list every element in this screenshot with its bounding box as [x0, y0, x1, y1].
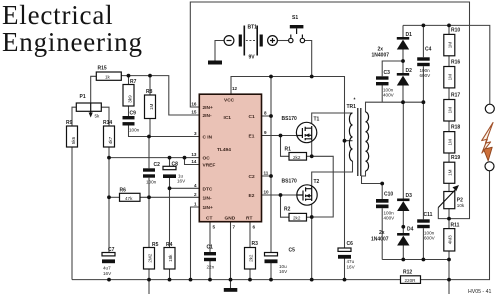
resistor R2 2k2	[284, 207, 307, 222]
svg-text:2M2: 2M2	[147, 253, 152, 262]
capacitor C11 100n 600V	[417, 212, 435, 241]
wire: P1 right terminal to R14	[101, 107, 109, 126]
svg-text:22n: 22n	[207, 265, 215, 270]
svg-text:OC: OC	[203, 156, 211, 162]
wire: ladder column R10-R11	[448, 25, 450, 294]
diode D1 1N4007	[397, 32, 412, 50]
wire: top HV bus to output terminal	[403, 25, 490, 104]
wire: R8 top to net A	[149, 76, 151, 95]
resistor R18	[444, 125, 461, 153]
svg-text:R18: R18	[451, 125, 460, 131]
svg-text:47u: 47u	[347, 259, 355, 264]
output terminal upper	[485, 104, 494, 113]
svg-text:GND: GND	[225, 216, 236, 222]
svg-text:600V: 600V	[424, 236, 436, 241]
svg-text:Engineering: Engineering	[2, 27, 143, 57]
capacitor C6 47u 16V electrolytic	[338, 241, 356, 269]
resistor R19	[444, 155, 461, 183]
resistor R5	[144, 242, 159, 269]
wire: R1 gate lead	[281, 136, 290, 157]
wire: DTC line pin 4 to C8 bottom	[170, 187, 200, 189]
wire: battery minus to ground	[215, 41, 224, 56]
svg-text:400V: 400V	[384, 216, 396, 221]
wire: switch S1 to +9V junction	[305, 41, 312, 77]
wire: OC/VREF line to pin 13 and pin 14	[109, 158, 199, 165]
svg-text:R12: R12	[403, 270, 412, 276]
wire: R6 left lead	[109, 196, 120, 198]
wire: ground bus	[72, 279, 449, 281]
capacitor C1 22n	[204, 245, 216, 270]
svg-text:4u7: 4u7	[103, 266, 111, 271]
wire: C9 bottom to IC pin 3	[129, 126, 200, 137]
svg-text:HV05 - 41: HV05 - 41	[468, 289, 491, 294]
svg-text:R16: R16	[451, 60, 460, 66]
wire: D1 D2 column	[402, 25, 404, 102]
svg-text:16V: 16V	[177, 179, 186, 184]
svg-text:C8: C8	[172, 162, 179, 168]
wire: R14 bottom through C7 column	[108, 147, 110, 253]
resistor R1 2k2	[285, 147, 307, 161]
svg-text:R8: R8	[146, 89, 153, 95]
svg-text:16V: 16V	[279, 269, 288, 274]
transformer TR1	[347, 98, 369, 177]
capacitor C10 100n 400V	[376, 192, 395, 221]
diode D2 1N4007	[397, 68, 412, 86]
svg-text:1IN+: 1IN+	[203, 205, 213, 211]
svg-text:D3: D3	[406, 193, 413, 199]
svg-text:*: *	[354, 98, 356, 104]
wire: C6 bottom to bus	[344, 259, 346, 280]
svg-text:VCC: VCC	[224, 98, 235, 104]
capacitor C3 100n 400V	[376, 70, 395, 98]
svg-text:C9: C9	[130, 111, 137, 117]
resistor R11	[444, 223, 460, 252]
svg-text:2k2: 2k2	[293, 155, 301, 160]
svg-text:C1: C1	[249, 114, 255, 120]
svg-text:S1: S1	[292, 15, 298, 21]
svg-text:R7: R7	[130, 79, 137, 85]
IC U1 TL494 body	[199, 94, 261, 222]
svg-text:4k7: 4k7	[108, 136, 113, 144]
svg-text:10k: 10k	[457, 203, 465, 208]
svg-text:1M: 1M	[448, 74, 453, 81]
svg-text:18k: 18k	[168, 254, 173, 262]
svg-text:R1: R1	[285, 147, 292, 153]
wire: CT pin 5 to C1	[209, 222, 211, 252]
svg-text:2k2: 2k2	[248, 254, 253, 262]
wire: feedback net from P2 wiper along top edge to IC pin 16	[190, 2, 469, 219]
svg-text:1k: 1k	[105, 75, 111, 80]
resistor R10	[444, 28, 461, 56]
junction dots transistor section	[279, 134, 314, 219]
svg-text:TR1: TR1	[347, 104, 357, 110]
wire: GND pin 7 to bus	[230, 222, 232, 280]
pin numbers IC1	[191, 86, 269, 230]
wire: R1 right to T1 source junction	[307, 155, 312, 157]
wire: RT pin 6 to R3	[249, 222, 251, 280]
svg-text:BS170: BS170	[282, 179, 298, 185]
capacitor C5 10u 16V electrolytic	[265, 248, 296, 275]
wire: P2 wiper jog	[438, 208, 449, 219]
wire: pin 10 to T2 gate	[262, 194, 298, 196]
wire: C5 bottom to bus	[270, 263, 272, 280]
potentiometer P1 5k	[76, 94, 101, 119]
resistor R17	[444, 93, 461, 122]
junction dots ladder	[422, 24, 451, 221]
wire: T1 drain to transformer primary top	[312, 113, 353, 123]
svg-text:C1: C1	[207, 245, 214, 251]
wire: R2 gate lead	[281, 195, 290, 217]
wire: T2 drain to transformer primary bottom	[312, 161, 353, 186]
transistor T2 BS170	[282, 179, 320, 206]
resistor R9	[66, 120, 78, 147]
resistor R8 1M	[145, 89, 156, 119]
resistor R3	[245, 241, 259, 269]
resistor R6 47k	[120, 188, 141, 202]
svg-text:6: 6	[253, 225, 256, 230]
resistor R15 1k	[96, 66, 121, 81]
capacitor C9 100n	[123, 111, 140, 133]
svg-text:1IN-: 1IN-	[203, 195, 212, 201]
svg-text:1M: 1M	[448, 107, 453, 114]
resistor R4	[164, 242, 175, 269]
svg-text:400V: 400V	[383, 93, 395, 98]
svg-text:C6: C6	[347, 241, 354, 247]
lightning bolt	[482, 123, 493, 161]
svg-text:16: 16	[191, 102, 197, 107]
capacitor C2 100n	[143, 162, 160, 185]
svg-text:T2: T2	[314, 179, 320, 185]
svg-text:T1: T1	[314, 117, 320, 123]
wire: P1 left terminal to R9	[72, 107, 76, 126]
svg-text:C IN: C IN	[203, 135, 213, 141]
ground battery	[208, 61, 222, 65]
wire: pin 9 to T1 gate	[262, 135, 297, 137]
capacitor C4 100n 600V	[417, 47, 431, 79]
wire: rectifier bottom rail	[382, 259, 449, 261]
svg-text:R10: R10	[451, 28, 460, 34]
svg-text:R17: R17	[451, 93, 460, 99]
svg-text:2IN+: 2IN+	[203, 105, 213, 111]
svg-text:C11: C11	[424, 212, 433, 218]
svg-text:R3: R3	[252, 241, 259, 247]
svg-text:2IN-: 2IN-	[203, 113, 212, 119]
junction dots rectifier section	[380, 59, 451, 261]
svg-text:BS170: BS170	[282, 116, 298, 122]
switch S1	[289, 15, 305, 43]
resistor R7	[123, 79, 137, 106]
svg-text:CT: CT	[206, 216, 212, 222]
svg-text:16V: 16V	[347, 264, 356, 269]
svg-text:D2: D2	[406, 68, 413, 74]
svg-text:R19: R19	[451, 155, 460, 161]
potentiometer P2 10k	[438, 185, 465, 209]
svg-text:5: 5	[213, 225, 216, 230]
svg-text:9V: 9V	[249, 55, 256, 61]
svg-text:C5: C5	[289, 248, 296, 254]
svg-text:100n: 100n	[129, 128, 140, 133]
junction dots left section	[107, 74, 186, 200]
wire: R2 right to T2 source junction	[307, 216, 312, 218]
junction dots ground bus	[107, 278, 451, 282]
wire: C8 column	[169, 158, 171, 248]
wire: D3 D4 column	[402, 102, 404, 259]
svg-text:100n: 100n	[146, 180, 157, 185]
wire: T1 source to T2 source jog	[312, 142, 334, 280]
capacitor C8 1u 16V electrolytic	[163, 162, 186, 184]
wire: R7/C9 column from net A	[128, 76, 130, 116]
svg-text:3k9: 3k9	[127, 95, 132, 103]
wire: R9 bottom to ground bus	[71, 147, 73, 280]
capacitor C7 4u7 16V electrolytic	[102, 247, 115, 276]
transistor T1 BS170	[282, 116, 320, 143]
wire: secondary top to HV rail	[366, 102, 424, 112]
svg-text:13: 13	[191, 152, 197, 157]
svg-text:16V: 16V	[103, 271, 112, 276]
svg-text:BT1: BT1	[248, 25, 258, 31]
wire: net A from R15 to IC pin 15	[121, 76, 199, 115]
svg-text:DTC: DTC	[203, 186, 213, 192]
svg-text:RT: RT	[246, 216, 252, 222]
svg-text:R4: R4	[166, 242, 173, 248]
svg-text:P1: P1	[80, 94, 86, 100]
svg-text:2x: 2x	[379, 230, 385, 236]
wire: R4 bottom to bus	[169, 269, 171, 280]
svg-text:14: 14	[191, 159, 197, 164]
svg-text:2k2: 2k2	[293, 216, 301, 221]
svg-text:IC1: IC1	[224, 115, 232, 121]
wire: C2 column pin3 line down to R5	[148, 137, 150, 248]
svg-text:3: 3	[194, 131, 197, 136]
wire: collector column C1/C2 to +9V rail and C5	[262, 77, 272, 253]
svg-text:VREF: VREF	[203, 163, 216, 169]
wire: 1IN- line from R6 to pin 2	[140, 196, 199, 198]
svg-text:D4: D4	[407, 227, 414, 233]
wire: C3 bottom to HV rail	[381, 85, 383, 102]
wire: lower output terminal to bus	[449, 171, 490, 280]
wire: R15 left to P1 wiper	[91, 76, 97, 103]
wire: secondary bottom to C10	[362, 171, 383, 184]
svg-text:1M: 1M	[149, 103, 154, 110]
battery BT1 9V	[224, 25, 277, 61]
svg-text:9: 9	[264, 130, 267, 135]
svg-text:R14: R14	[103, 120, 112, 126]
svg-text:C2: C2	[249, 174, 255, 180]
diode D4 1N4007	[397, 227, 414, 246]
resistor R14	[103, 120, 115, 147]
svg-text:R5: R5	[152, 242, 159, 248]
resistor R16	[444, 60, 461, 88]
svg-text:220R: 220R	[405, 278, 417, 283]
svg-text:2: 2	[194, 192, 197, 197]
wire: pin 1 to ground bus	[191, 207, 200, 280]
svg-text:R15: R15	[98, 66, 107, 72]
svg-text:C4: C4	[425, 47, 432, 53]
svg-text:R9: R9	[66, 120, 73, 126]
svg-text:TL494: TL494	[217, 147, 231, 153]
wire: C1 bottom to bus	[209, 260, 211, 279]
svg-text:4: 4	[194, 183, 197, 188]
wire: C3 top lead to D1-D2 junction	[382, 61, 403, 76]
svg-text:10: 10	[264, 190, 270, 195]
svg-text:C10: C10	[384, 192, 393, 198]
svg-text:11: 11	[264, 171, 269, 176]
svg-text:1M: 1M	[448, 42, 453, 49]
wire: R5 bottom through bus to image edge	[148, 269, 150, 294]
diode D3 1N4007	[397, 193, 412, 211]
svg-text:R2: R2	[284, 207, 291, 213]
svg-text:C2: C2	[154, 162, 161, 168]
svg-text:E2: E2	[249, 193, 255, 199]
resistor R12 220R	[401, 270, 421, 284]
svg-text:1N4007: 1N4007	[372, 53, 390, 59]
svg-text:15: 15	[191, 110, 197, 115]
svg-text:8: 8	[264, 111, 267, 116]
wire: +9V rail to VCC pin 12 and transformer center tap	[231, 77, 353, 249]
svg-text:7: 7	[233, 225, 236, 230]
svg-text:5k6: 5k6	[71, 136, 76, 144]
output terminal lower	[485, 162, 494, 171]
svg-text:Electrical: Electrical	[2, 0, 113, 30]
svg-text:12: 12	[232, 86, 238, 91]
svg-text:1N4007: 1N4007	[371, 237, 389, 243]
wire: C10 column	[381, 184, 383, 260]
junction dots on +9V rail	[269, 75, 346, 178]
svg-text:R6: R6	[120, 188, 127, 194]
svg-text:1M: 1M	[448, 139, 453, 146]
svg-text:C3: C3	[384, 70, 391, 76]
svg-text:47k: 47k	[125, 196, 133, 201]
svg-text:D1: D1	[406, 32, 413, 38]
svg-text:R11: R11	[451, 223, 460, 229]
svg-text:5k: 5k	[95, 114, 101, 119]
svg-text:600V: 600V	[420, 73, 432, 78]
svg-text:1: 1	[194, 202, 197, 207]
wire: R8 bottom to pin3 line	[149, 119, 151, 137]
ground symbol	[230, 280, 232, 288]
svg-text:4M3: 4M3	[448, 235, 453, 244]
svg-text:C7: C7	[108, 247, 115, 253]
svg-text:E1: E1	[249, 134, 255, 140]
wire: C4/C11 column	[422, 25, 424, 259]
wire: battery plus to switch S1	[277, 40, 288, 42]
svg-text:1M: 1M	[448, 169, 453, 176]
